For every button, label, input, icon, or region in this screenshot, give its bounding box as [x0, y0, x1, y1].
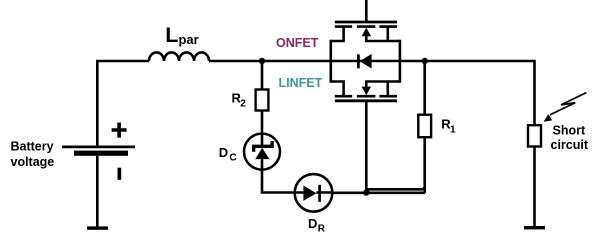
battery B1 negative plate: [74, 151, 128, 156]
svg-text:Battery: Battery: [11, 139, 54, 153]
minus sign (vertical): [118, 168, 122, 180]
battery B1 positive plate: [62, 145, 135, 148]
lightning arrow (short circuit strike): [544, 93, 587, 122]
wire: junction down to R2: [261, 61, 264, 90]
wire: short resistor to ground: [533, 147, 536, 227]
inductor Lpar: [149, 52, 209, 61]
gate bar: [335, 99, 397, 102]
wire: main to short-circuit branch: [425, 61, 535, 125]
diode DR (circled): [295, 174, 333, 212]
resistor R1: [423, 61, 426, 115]
ground (battery): [87, 226, 108, 229]
svg-text:circuit: circuit: [551, 138, 589, 152]
svg-text:R: R: [318, 224, 326, 233]
gate lead top: [365, 0, 368, 22]
svg-text:LINFET: LINFET: [279, 76, 323, 90]
resistor short-circuit: [528, 125, 541, 146]
transistor ONFET (top MOSFET): [331, 0, 400, 41]
wire: battery top to inductor: [97, 61, 149, 146]
svg-text:2: 2: [240, 99, 246, 110]
svg-text:D: D: [308, 216, 317, 231]
plus sign: [112, 123, 127, 138]
wire: DR to R1 bottom corner: [331, 192, 425, 195]
ground (short circuit): [524, 226, 545, 229]
right stub: [365, 82, 400, 97]
svg-text:1: 1: [450, 125, 456, 136]
substrate arrow up: [365, 34, 368, 41]
wire: battery to ground: [96, 156, 99, 227]
wire: junction to R1 (upper doubled segment): [366, 137, 424, 193]
svg-text:ONFET: ONFET: [276, 36, 319, 50]
substrate arrow down: [365, 82, 368, 90]
right stub: [365, 27, 400, 41]
svg-text:C: C: [229, 152, 237, 164]
svg-text:Short: Short: [553, 124, 586, 138]
resistor R2: [256, 90, 269, 111]
channel segments: [335, 25, 397, 28]
svg-text:voltage: voltage: [11, 155, 55, 169]
svg-text:D: D: [219, 145, 228, 160]
gate bar: [335, 21, 397, 24]
left stub: [331, 27, 344, 41]
node junction gate lead / bottom wire: [363, 189, 369, 195]
channel segments: [335, 95, 397, 98]
node junction R1 / main wire: [422, 58, 428, 64]
body diode (between rails): [331, 54, 425, 69]
gate lead bottom: [365, 101, 368, 193]
left rail of FET pair: [329, 40, 332, 83]
left stub: [331, 82, 344, 97]
wire: inductor to FET left rail: [209, 60, 331, 63]
wire: DC to DR: [262, 169, 295, 193]
wire: R2 to DC: [261, 111, 264, 134]
right rail of FET pair: [399, 40, 402, 83]
diode DC (zener, circled): [244, 134, 280, 170]
transistor LINFET (bottom MOSFET): [331, 82, 400, 193]
node junction R2: [259, 58, 265, 64]
